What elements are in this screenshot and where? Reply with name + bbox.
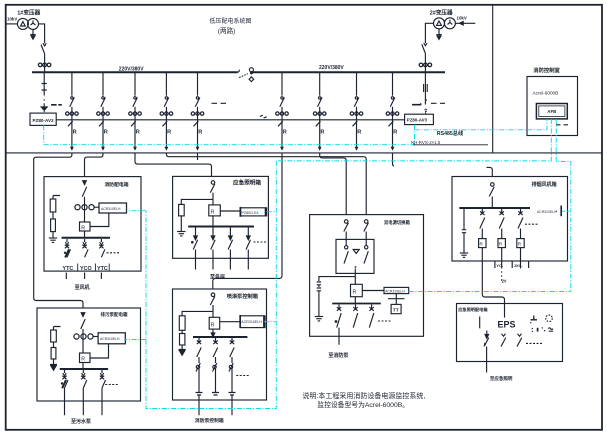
svg-text:220V/380V: 220V/380V (319, 65, 344, 71)
svg-text:R: R (211, 322, 215, 328)
svg-text:消防配电箱: 消防配电箱 (105, 181, 129, 188)
svg-text:排污泵配电箱: 排污泵配电箱 (101, 311, 128, 318)
svg-text:PZ80-AV3: PZ80-AV3 (33, 118, 55, 123)
svg-text:R: R (211, 209, 215, 215)
svg-text:NH-RVS-2×1.5: NH-RVS-2×1.5 (411, 140, 441, 145)
svg-text:220V/380V: 220V/380V (119, 66, 144, 72)
svg-text:消防泵控制箱: 消防泵控制箱 (195, 417, 224, 424)
svg-text:至消防泵: 至消防泵 (328, 352, 349, 359)
svg-text:监控设备型号为Acrel-6000B。: 监控设备型号为Acrel-6000B。 (317, 400, 409, 409)
svg-text:排烟风机箱: 排烟风机箱 (532, 181, 557, 188)
svg-text:ACR310ELH: ACR310ELH (100, 337, 120, 341)
svg-text:至各层: 至各层 (210, 274, 225, 281)
svg-text:1#变压器: 1#变压器 (17, 9, 40, 17)
svg-text:(两路): (两路) (218, 26, 236, 35)
svg-text:双电源切换箱: 双电源切换箱 (384, 219, 410, 226)
svg-text:应急照明箱: 应急照明箱 (233, 178, 261, 186)
svg-text:10kV: 10kV (7, 17, 17, 22)
svg-text:ACR310ELH: ACR310ELH (101, 207, 121, 211)
svg-text:ACR310ELH: ACR310ELH (385, 289, 405, 293)
svg-text:YC-: YC- (496, 263, 504, 268)
svg-text:ACR310ELH: ACR310ELH (537, 210, 557, 214)
svg-text:R: R (81, 225, 85, 231)
svg-text:R: R (353, 290, 357, 296)
svg-text:RS485总线: RS485总线 (437, 129, 464, 137)
svg-text:EPS: EPS (498, 319, 516, 329)
svg-text:YCO: YCO (80, 266, 92, 272)
svg-text:应急照明配电箱: 应急照明配电箱 (458, 306, 488, 313)
svg-text:Acrel-6000B: Acrel-6000B (533, 90, 559, 95)
svg-text:至应急照明: 至应急照明 (490, 375, 513, 382)
svg-text:2#: 2# (502, 279, 508, 284)
svg-text:R: R (518, 242, 522, 247)
svg-text:说明:本工程采用消防设备电源监控系统,: 说明:本工程采用消防设备电源监控系统, (302, 391, 425, 400)
svg-text:YTC: YTC (97, 266, 108, 272)
svg-text:R: R (480, 242, 484, 247)
svg-text:ACR310ELH: ACR310ELH (241, 320, 262, 324)
svg-text:消防控制室: 消防控制室 (533, 66, 560, 74)
svg-text:R: R (499, 242, 503, 247)
svg-text:低压配电系统图: 低压配电系统图 (210, 17, 252, 25)
svg-text:PZ80G-E4: PZ80G-E4 (242, 211, 259, 215)
svg-text:YTC: YTC (63, 266, 74, 272)
svg-text:R: R (81, 357, 85, 363)
svg-text:2#变压器: 2#变压器 (430, 9, 453, 17)
svg-text:喷淋泵控制箱: 喷淋泵控制箱 (227, 292, 259, 300)
svg-text:至风机: 至风机 (75, 284, 90, 291)
svg-text:至污水泵: 至污水泵 (71, 418, 92, 425)
svg-text:AFB: AFB (547, 109, 556, 114)
svg-text:10kV: 10kV (457, 16, 467, 21)
svg-text:PZ80-AV3: PZ80-AV3 (407, 118, 428, 123)
svg-text:JXC-: JXC- (514, 263, 524, 268)
svg-text:TT: TT (393, 308, 399, 314)
